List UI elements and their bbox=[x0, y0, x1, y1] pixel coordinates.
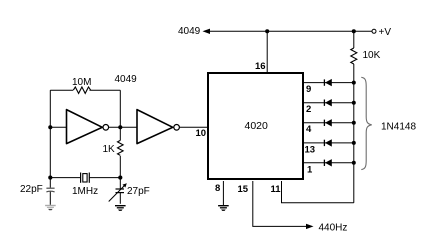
wire feedback top bbox=[50, 89, 120, 91]
capacitor 27pF trimmer bbox=[109, 178, 127, 204]
resistor 10M bbox=[73, 86, 91, 95]
wire pin4 bbox=[303, 122, 354, 124]
node junction top 10K bbox=[352, 29, 356, 33]
svg-text:10: 10 bbox=[196, 128, 207, 139]
svg-text:27pF: 27pF bbox=[127, 186, 150, 197]
svg-text:1N4148: 1N4148 bbox=[381, 122, 416, 133]
svg-text:8: 8 bbox=[215, 183, 220, 194]
wire feedback right vertical bbox=[119, 90, 121, 127]
svg-text:15: 15 bbox=[238, 184, 249, 195]
svg-text:1MHz: 1MHz bbox=[72, 186, 98, 197]
wire bottom horizontal bbox=[50, 177, 80, 179]
svg-text:440Hz: 440Hz bbox=[319, 223, 348, 234]
brace 1N4148 bbox=[361, 77, 371, 169]
svg-text:22pF: 22pF bbox=[20, 184, 43, 195]
svg-text:11: 11 bbox=[271, 184, 282, 195]
node bus D1 bbox=[352, 81, 356, 85]
svg-text:2: 2 bbox=[306, 104, 311, 115]
ground pin8 bbox=[218, 206, 229, 211]
inverter U2b bbox=[137, 110, 179, 144]
ground 22pF bbox=[45, 206, 56, 211]
IC U1 4020 bbox=[208, 73, 303, 179]
wire left vertical bbox=[49, 90, 51, 177]
node feedback junction bbox=[118, 125, 122, 129]
wire pin9 bbox=[303, 82, 354, 84]
ground 27pF bbox=[115, 206, 126, 211]
node bus D5 bbox=[352, 161, 356, 165]
svg-text:13: 13 bbox=[305, 145, 316, 156]
node bottom left bbox=[48, 176, 52, 180]
wire pin13 bbox=[303, 142, 354, 144]
diode D2 1N4148 bbox=[324, 99, 331, 106]
node bus D2 bbox=[352, 101, 356, 105]
svg-text:+V: +V bbox=[379, 27, 392, 38]
crystal X1 1MHz bbox=[81, 173, 90, 183]
diode D5 1N4148 bbox=[324, 159, 331, 166]
svg-text:9: 9 bbox=[306, 84, 311, 95]
arrow to 4049 supply bbox=[203, 29, 211, 34]
wire pin8 ground bbox=[222, 181, 224, 205]
node bus D3 bbox=[352, 121, 356, 125]
wire pin1 bbox=[303, 162, 354, 164]
node bottom right bbox=[118, 176, 122, 180]
node bus D4 bbox=[352, 141, 356, 145]
svg-text:4: 4 bbox=[306, 124, 312, 135]
capacitor 22pF bbox=[46, 178, 54, 205]
wire pin11 to bus bbox=[282, 181, 354, 203]
svg-text:16: 16 bbox=[255, 61, 266, 72]
svg-text:10K: 10K bbox=[363, 50, 381, 61]
arrow 440Hz bbox=[306, 224, 314, 229]
diode D3 1N4148 bbox=[324, 119, 331, 126]
inverter U2a bbox=[67, 110, 109, 144]
diode D1 1N4148 bbox=[324, 79, 331, 86]
wire pin16 vertical bbox=[266, 31, 268, 72]
resistor 10K bbox=[351, 31, 357, 82]
svg-text:1K: 1K bbox=[103, 144, 116, 155]
node input junction bbox=[48, 125, 52, 129]
svg-text:1: 1 bbox=[307, 165, 313, 176]
wire diode bus vertical bbox=[353, 83, 355, 203]
terminal +V bbox=[372, 29, 376, 33]
svg-text:4049: 4049 bbox=[178, 26, 201, 37]
node junction top pin16 bbox=[265, 29, 269, 33]
svg-text:10M: 10M bbox=[72, 77, 91, 88]
svg-text:4020: 4020 bbox=[245, 120, 269, 132]
wire pin2 bbox=[303, 102, 354, 104]
wire bottom horizontal right bbox=[89, 177, 120, 179]
resistor 1K bbox=[118, 127, 124, 177]
wire pin15 output bbox=[253, 181, 311, 226]
diode D4 1N4148 bbox=[324, 139, 331, 146]
wire inverter1 to inverter2 bbox=[109, 126, 137, 128]
wire inverter1 input bbox=[50, 126, 66, 128]
wire pin10 input bbox=[180, 126, 209, 128]
svg-text:4049: 4049 bbox=[115, 74, 138, 85]
wire top supply bbox=[209, 30, 372, 32]
